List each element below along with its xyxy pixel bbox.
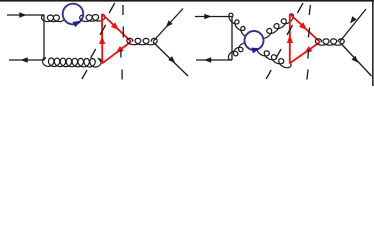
wire: right incoming quark top — [195, 16, 232, 18]
quark-loop triangle bottom edge — [102, 42, 131, 64]
arrow on right top-right quark (toward vertex) — [350, 16, 357, 23]
arrow on blue circle left — [72, 21, 81, 28]
dashed vertical cut line right — [309, 5, 310, 15]
quark-loop triangle left edge — [101, 14, 103, 63]
dashed slanted cut line left — [109, 3, 115, 13]
arrow triangle bottom edge — [116, 46, 124, 53]
wire: left outgoing antiquark bottom — [9, 59, 44, 61]
wire: left top-right quark line — [153, 9, 183, 42]
arrow on right bottom-right quark (outgoing) — [352, 56, 359, 63]
loop: blue gluon self-energy circle left diagram — [63, 4, 84, 25]
arrow on left bottom-right quark (outgoing) — [168, 56, 175, 63]
quark-loop triangle right diagram left edge — [289, 14, 291, 63]
arrow triangle right-diagram left edge (up) — [287, 35, 293, 43]
arrow on left incoming quark top — [19, 12, 26, 17]
arrow on blue circle right — [251, 48, 260, 54]
frame right border — [372, 0, 374, 86]
arrow triangle left edge (up) — [99, 36, 105, 44]
wire: left vertical quark line — [43, 15, 45, 60]
frame top border — [0, 0, 374, 2]
arrow on right incoming quark top — [204, 14, 211, 19]
arrow on left top-right quark (toward vertex) — [166, 20, 173, 27]
gluon: right diagram crossing gluon lower-left — [228, 43, 248, 60]
gluon: left lower gluon — [43, 58, 103, 67]
arrow triangle right-diagram top edge — [299, 22, 307, 30]
arrow on right outgoing antiquark bottom — [204, 57, 211, 62]
gluon: right diagram crossing gluon upper-left — [229, 13, 251, 37]
loop: blue gluon circle at crossing right diagram — [245, 31, 264, 50]
wire: left incoming quark top — [7, 14, 44, 16]
arrow triangle top edge — [111, 22, 119, 30]
gluon: right diagram crossing gluon upper-right — [260, 14, 294, 39]
wire: right bottom-right quark line — [340, 42, 372, 76]
dashed vertical cut line left — [122, 5, 124, 15]
gluon: left right-side gluon — [127, 38, 157, 45]
wire: right outgoing antiquark bottom — [196, 59, 232, 61]
wire: right vertical quark line — [231, 17, 233, 61]
gluon: left upper gluon segment 2 — [80, 14, 105, 21]
quark-loop triangle right diagram top edge — [290, 14, 320, 42]
quark-loop triangle top edge — [102, 14, 131, 42]
arrow on left outgoing antiquark bottom — [21, 57, 28, 62]
quark-loop triangle right diagram bottom edge — [290, 42, 320, 63]
gluon: right diagram crossing gluon lower-right — [257, 47, 291, 68]
gluon: left upper gluon segment 1 — [42, 15, 66, 22]
gluon: right diagram right-side gluon — [315, 39, 344, 45]
wire: left bottom-right quark line — [153, 42, 188, 76]
wire: right top-right quark line — [340, 9, 367, 42]
arrow triangle right-diagram bottom edge — [304, 46, 312, 53]
dashed slanted cut line right — [297, 3, 303, 13]
